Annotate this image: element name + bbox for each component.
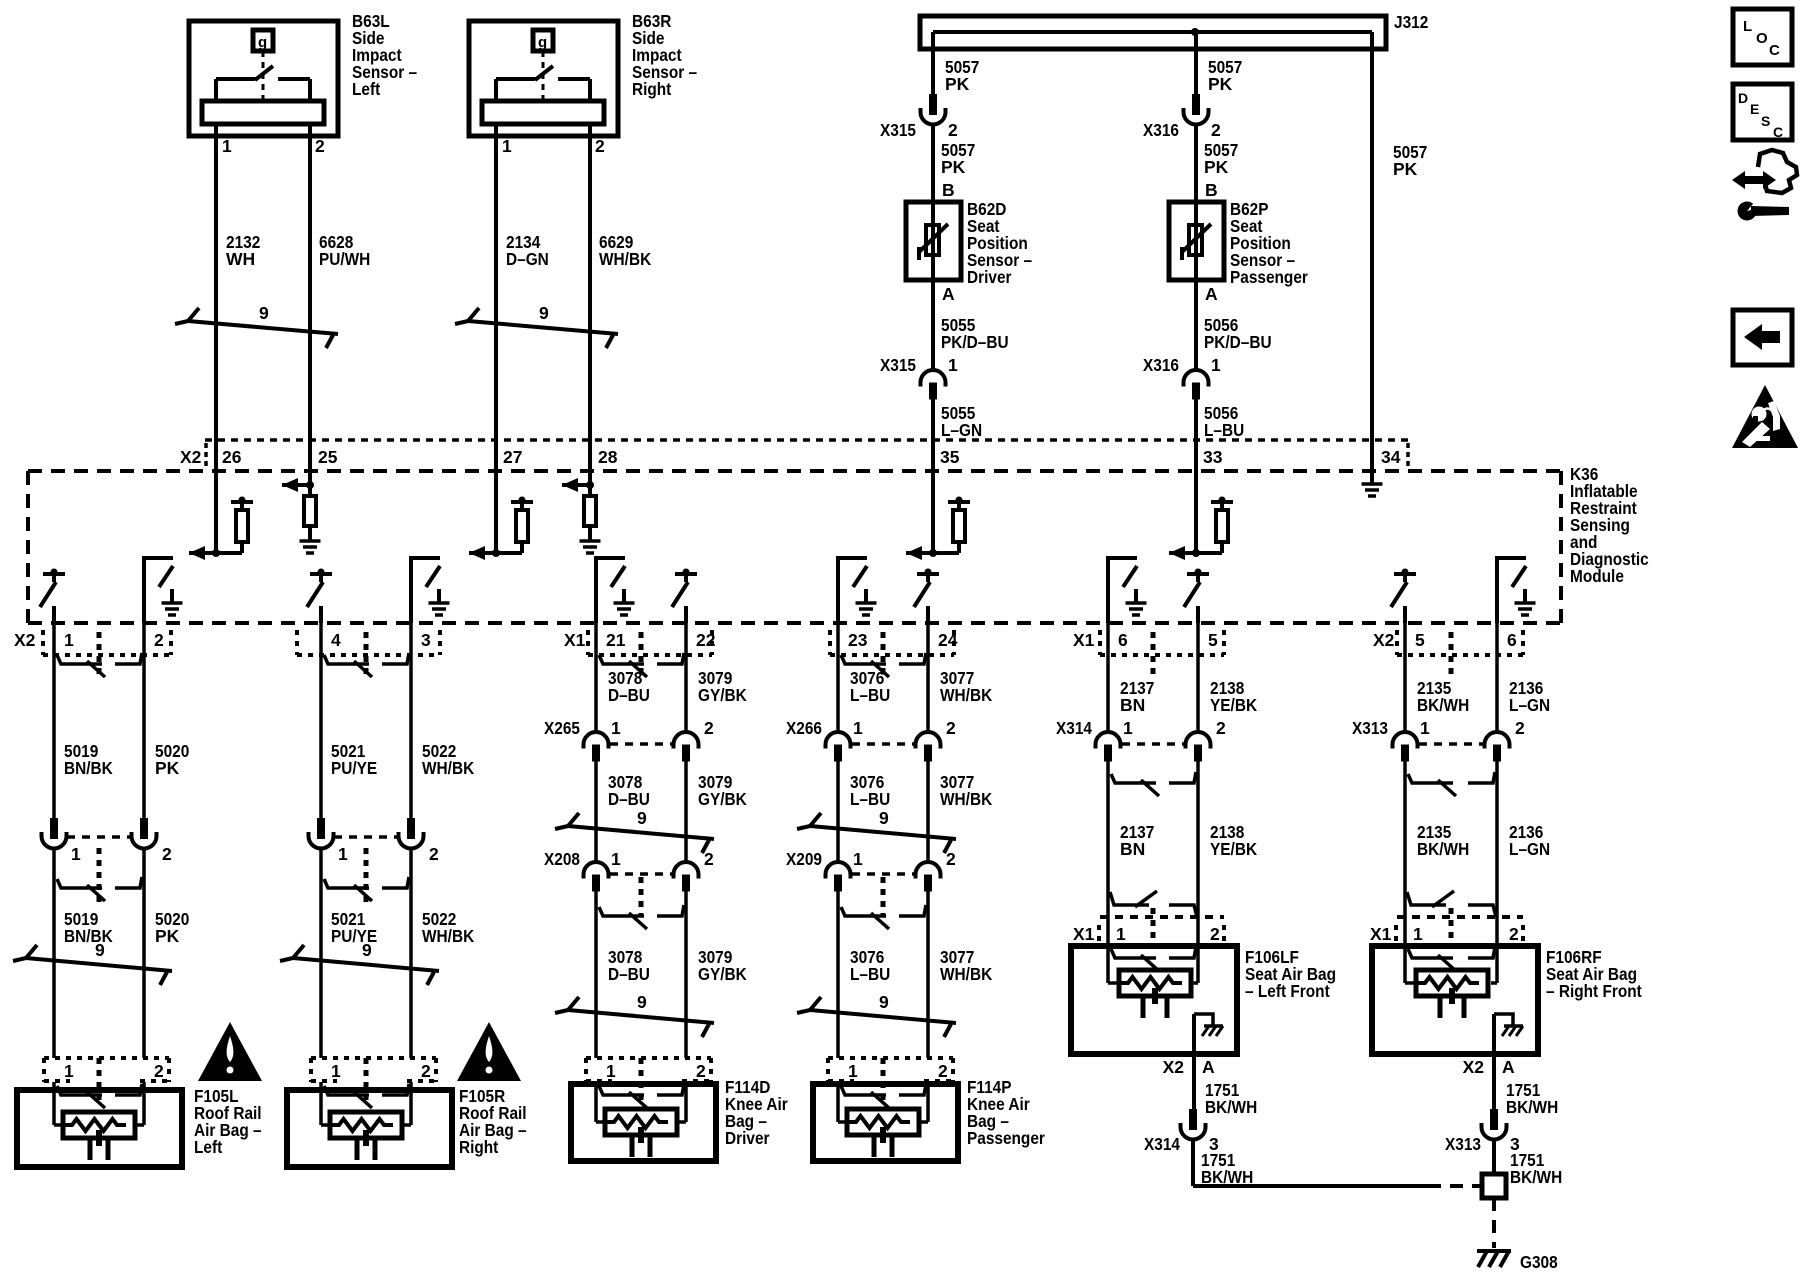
connector face row above F105L (44, 1058, 169, 1100)
sensor B63R connector bar (482, 101, 604, 124)
svg-text:PK/D–BU: PK/D–BU (1204, 332, 1272, 352)
connector X314 right half (1186, 732, 1211, 762)
twist G6 below X313 (1408, 772, 1495, 796)
F106LF row pin 1 label (1116, 924, 1126, 944)
svg-text:D–BU: D–BU (608, 964, 650, 984)
wire 2137 into F106LF (1108, 917, 1118, 983)
wire label 2136 L-GN (1) (1509, 678, 1550, 715)
wire B63R pin2 down (588, 124, 592, 470)
svg-text:X314: X314 (1144, 1134, 1180, 1154)
label X2 (band G6) (1373, 630, 1395, 650)
wire 2135 into F106RF (1405, 917, 1415, 983)
pin B label B62D (942, 180, 955, 200)
wire label 5057 PK (left) (945, 57, 979, 94)
wire label 3077 WH/BK (1) (940, 668, 993, 705)
K36 high-side driver pin 22 (672, 569, 697, 624)
sensor B63L box (189, 21, 338, 136)
svg-text:2: 2 (1210, 924, 1220, 944)
connector row X1 above F106LF (1099, 908, 1224, 946)
svg-text:X1: X1 (1370, 924, 1392, 944)
wire label 6628 PU/WH (319, 232, 370, 269)
svg-text:1: 1 (1420, 718, 1430, 738)
label B62P (1230, 199, 1308, 287)
airbag F106RF box (1372, 946, 1538, 1054)
wire 5022 into F105R (402, 1082, 411, 1125)
wire 1751 from F106LF (1192, 1054, 1196, 1109)
connector X316 pin 2 (1184, 94, 1209, 125)
svg-text:1: 1 (1116, 924, 1126, 944)
connector band cell group 5 (1100, 630, 1224, 674)
igniter squib F114P (847, 1109, 919, 1157)
twist below band G4 (841, 653, 926, 677)
connector X313 link (1419, 742, 1483, 746)
wire 3076 into F114P (838, 1082, 846, 1122)
svg-text:9: 9 (95, 940, 105, 960)
svg-text:2: 2 (946, 849, 956, 869)
inline connector G1 right half (132, 818, 157, 848)
svg-text:9: 9 (879, 992, 889, 1012)
pin 2 label X315 (948, 120, 958, 140)
seat position sensor B62D box (906, 202, 961, 280)
label X314 (pin3) (1144, 1134, 1180, 1154)
sensor B63L switch blade (255, 66, 273, 80)
connector band cell group 2 (297, 630, 440, 674)
icon LOC box (1733, 9, 1792, 65)
band pin 5 label (G6) (1415, 630, 1425, 650)
K36 input sense pin 35 (arrow, resistor) (906, 470, 970, 560)
svg-text:21: 21 (606, 630, 626, 650)
svg-text:25: 25 (318, 447, 338, 467)
svg-text:2: 2 (315, 136, 325, 156)
wire 3077 seg3 (926, 891, 930, 1058)
svg-text:34: 34 (1381, 447, 1401, 467)
band pin 6 label (G6) (1507, 630, 1517, 650)
wire label 3078 D-BU (2) (608, 772, 650, 809)
svg-text:X1: X1 (564, 630, 586, 650)
K36 low-side driver pin 2 (144, 556, 183, 623)
wire 2138 seg1 (1196, 623, 1200, 732)
wire label 5055 L-GN (941, 403, 982, 440)
svg-text:2: 2 (154, 1061, 164, 1081)
svg-text:1: 1 (948, 355, 958, 375)
wire label 3076 L-BU (3) (850, 947, 890, 984)
svg-text:PK: PK (1208, 74, 1233, 94)
module K36 bottom edge (28, 621, 1561, 625)
connector X265 left half (584, 732, 609, 762)
label X1 (band G3) (564, 630, 586, 650)
connector X316 pin 1 (1184, 370, 1209, 400)
wire B63R pin1 down (494, 124, 498, 470)
wire label 3079 GY/BK (2) (698, 772, 747, 809)
ground G308 (1477, 1251, 1511, 1267)
svg-text:BK/WH: BK/WH (1510, 1167, 1562, 1187)
svg-text:X2: X2 (1373, 630, 1395, 650)
sensor B63L g-symbol box (253, 30, 273, 51)
inline connector G1 left half (42, 818, 67, 848)
svg-text:BN/BK: BN/BK (64, 926, 113, 946)
svg-text:D–BU: D–BU (608, 789, 650, 809)
wire 5057 PK from J312 (right) (1194, 32, 1198, 95)
connector band cell group 4 (830, 630, 954, 674)
wire label 2132 WH (226, 232, 261, 269)
svg-text:PK/D–BU: PK/D–BU (941, 332, 1009, 352)
svg-text:PU/YE: PU/YE (331, 758, 377, 778)
svg-text:J312: J312 (1394, 12, 1429, 32)
F106RF case ground (1494, 1014, 1523, 1054)
label X265 (544, 718, 580, 738)
svg-text:X1: X1 (1073, 630, 1095, 650)
X209 pin 1 label (853, 849, 863, 869)
K36 high-side driver pin 4 (307, 569, 332, 624)
wire label 2137 BN (1) (1120, 678, 1154, 715)
svg-text:2: 2 (938, 1061, 948, 1081)
svg-text:WH/BK: WH/BK (940, 964, 993, 984)
X265 pin 2 label (704, 718, 714, 738)
svg-text:YE/BK: YE/BK (1210, 695, 1257, 715)
svg-text:Left: Left (352, 79, 380, 99)
twist G6 above X1 row (1407, 891, 1496, 917)
wire label 5056 PK/D-BU (1204, 315, 1272, 352)
svg-text:1: 1 (611, 849, 621, 869)
wire 5055 PK/D-BU (931, 280, 935, 370)
svg-text:PU/WH: PU/WH (319, 249, 370, 269)
svg-text:2: 2 (421, 1061, 431, 1081)
airbag F105L box (17, 1090, 182, 1167)
svg-text:X313: X313 (1352, 718, 1388, 738)
inline connector G1 link (67, 837, 131, 905)
svg-text:22: 22 (696, 630, 716, 650)
svg-text:2: 2 (1515, 718, 1525, 738)
label X208 (544, 849, 580, 869)
wire 3078 seg1 (594, 623, 598, 732)
wire 5020 into F105L (135, 1082, 144, 1125)
X265 pin 1 label (611, 718, 621, 738)
wire 3078 seg2 (594, 761, 598, 862)
connector row X2 right edge (1406, 443, 1410, 468)
svg-text:GY/BK: GY/BK (698, 789, 747, 809)
svg-text:9: 9 (637, 992, 647, 1012)
svg-text:26: 26 (222, 447, 242, 467)
svg-text:23: 23 (848, 630, 868, 650)
wire 2136 seg1 (1495, 623, 1499, 732)
svg-text:PK: PK (1393, 159, 1418, 179)
junction block J312 (920, 16, 1386, 49)
wire label 5019 BN/BK (lower) (64, 909, 113, 946)
icon airbag warning triangle (1732, 385, 1798, 448)
pin 2 of B63R (595, 136, 605, 156)
connector X209 link (852, 874, 916, 916)
connector X209 left half (826, 862, 851, 892)
wire 5019 mid (52, 848, 56, 1058)
X266 pin 1 label (853, 718, 863, 738)
twisted pair marker 9 (G2) (280, 940, 439, 985)
svg-text:g: g (538, 34, 547, 51)
wire 5057 PK from J312 (931, 32, 935, 95)
connector band cell group 1 (43, 630, 171, 674)
K36 input sense pin 27 (arrow, resistor) (469, 470, 533, 560)
svg-text:WH/BK: WH/BK (940, 685, 993, 705)
sensor B63R dashed actuator link (542, 51, 545, 100)
K36 input sense pin 26 (arrow, resistor) (189, 470, 253, 560)
wire B63L pin1 down (214, 124, 218, 470)
connector band cell group 3 (588, 630, 712, 674)
wire 5022 upper (409, 623, 413, 824)
inline G2 pin 2 label (429, 844, 439, 864)
sensor B63R g-symbol box (533, 30, 553, 51)
module K36 left edge (26, 471, 30, 623)
warning triangle (F105R) (457, 1022, 521, 1081)
airbag F114D box (571, 1084, 716, 1161)
svg-text:A: A (1202, 1057, 1215, 1077)
label X209 (786, 849, 822, 869)
pin 26 label (222, 447, 242, 467)
sensor B63R box (469, 21, 618, 136)
wire 3077 into F114P (920, 1082, 928, 1122)
wire 2138 into F106LF (1192, 917, 1198, 983)
airbag F105R box (287, 1090, 452, 1167)
svg-text:PK: PK (155, 758, 180, 778)
connector X266 left half (826, 732, 851, 762)
wire label 2138 YE/BK (1) (1210, 678, 1257, 715)
X313 pin 2 label (1515, 718, 1525, 738)
wire label 5021 PU/YE (lower) (331, 909, 377, 946)
wire 2135 seg2 (1403, 761, 1407, 917)
twist G6 inside box (1408, 947, 1495, 971)
svg-text:X265: X265 (544, 718, 580, 738)
K36 high-side driver pin 24 (914, 569, 939, 624)
wire label 5055 PK/D-BU (941, 315, 1009, 352)
connector X313 pin 3 (1482, 1109, 1507, 1140)
svg-text:YE/BK: YE/BK (1210, 839, 1257, 859)
svg-text:X209: X209 (786, 849, 822, 869)
pin 27 label (503, 447, 522, 467)
svg-text:9: 9 (539, 303, 549, 323)
svg-text:1: 1 (1413, 924, 1423, 944)
svg-text:C: C (1769, 42, 1780, 59)
pin B label B62P (1205, 180, 1218, 200)
svg-text:33: 33 (1203, 447, 1223, 467)
wire 5019 into F105L (54, 1082, 63, 1125)
svg-text:BK/WH: BK/WH (1201, 1167, 1253, 1187)
wire 5020 mid (142, 848, 146, 1058)
wire 3078 into F114D (596, 1082, 604, 1122)
igniter squib F106LF (1119, 970, 1191, 1018)
label X1 (F106RF row) (1370, 924, 1392, 944)
svg-text:WH/BK: WH/BK (422, 758, 475, 778)
inline G1 pin 2 label (162, 844, 172, 864)
svg-text:3: 3 (421, 630, 431, 650)
label K36 (1570, 464, 1649, 586)
sensor B62P potentiometer (1181, 224, 1211, 280)
inline G1 pin 1 label (71, 844, 81, 864)
igniter squib F105L (63, 1112, 135, 1160)
connector X314 pin 3 (1181, 1109, 1206, 1140)
svg-text:X266: X266 (786, 718, 822, 738)
wire 3078 seg3 (594, 891, 598, 1058)
airbag F114P box (813, 1084, 958, 1161)
sensor B63R label (632, 11, 697, 99)
pin 1 label X316 (1211, 355, 1221, 375)
svg-text:PK: PK (1204, 157, 1229, 177)
wire label 3077 WH/BK (3) (940, 947, 993, 984)
svg-text:9: 9 (362, 940, 372, 960)
svg-text:24: 24 (938, 630, 958, 650)
band pin 4 label (331, 630, 341, 650)
wire 2136 into F106RF (1491, 917, 1497, 983)
wire 5022 mid (409, 848, 413, 1058)
K36 low-side driver pin 6 (X2) (1497, 556, 1536, 623)
svg-text:1: 1 (338, 844, 348, 864)
svg-text:27: 27 (503, 447, 522, 467)
svg-text:S: S (1761, 113, 1770, 129)
svg-text:X316: X316 (1143, 355, 1179, 375)
svg-text:Driver: Driver (967, 267, 1012, 287)
X209 pin 2 label (946, 849, 956, 869)
svg-text:PK: PK (941, 157, 966, 177)
twist G1 at F105L (57, 1084, 142, 1108)
svg-text:GY/BK: GY/BK (698, 685, 747, 705)
svg-text:1: 1 (222, 136, 232, 156)
wire 5019 upper (52, 623, 56, 824)
label X315 (top) (880, 120, 916, 140)
wire 5056 PK/D-BU (1194, 280, 1198, 370)
twist G4 at F114P (841, 1084, 926, 1108)
twisted pair marker 9 (G3 upper) (555, 808, 714, 853)
svg-text:5: 5 (1208, 630, 1218, 650)
svg-text:4: 4 (331, 630, 341, 650)
pin 35 label (940, 447, 960, 467)
wire 2135 seg1 (1403, 623, 1407, 732)
connector X315 pin 1 (921, 370, 946, 400)
K36 input sense pin 33 (arrow, resistor) (1169, 470, 1233, 560)
svg-text:L–GN: L–GN (1509, 695, 1550, 715)
wire 3076 seg3 (836, 891, 840, 1058)
F106LF row pin 2 label (1210, 924, 1220, 944)
wire 2137 seg2 (1106, 761, 1110, 917)
twist below band G1 (57, 653, 142, 677)
svg-text:GY/BK: GY/BK (698, 964, 747, 984)
svg-text:X2: X2 (180, 447, 202, 467)
svg-text:L–BU: L–BU (850, 685, 890, 705)
pin A label B62P (1205, 284, 1218, 304)
wire 5057 PK to K36 pin 34 (1370, 32, 1374, 470)
label F114P (967, 1077, 1045, 1148)
svg-text:1: 1 (71, 844, 81, 864)
svg-text:2: 2 (595, 136, 605, 156)
label X2 A (F106LF) (1163, 1057, 1215, 1077)
pin A label B62D (942, 284, 955, 304)
pin 28 label (598, 447, 618, 467)
wire 5057 PK to B62P (1194, 124, 1198, 225)
svg-text:Right: Right (459, 1137, 498, 1157)
twist G3 below X208 (599, 905, 684, 929)
svg-text:9: 9 (879, 808, 889, 828)
svg-text:PK: PK (155, 926, 180, 946)
pin 1 of B63L (222, 136, 232, 156)
svg-text:1: 1 (1211, 355, 1221, 375)
svg-text:9: 9 (637, 808, 647, 828)
wire label 5056 L-BU (1204, 403, 1244, 440)
twist G2 at F105R (324, 1084, 409, 1108)
label F105R (459, 1086, 527, 1157)
svg-text:35: 35 (940, 447, 960, 467)
connector X209 right half (916, 862, 941, 892)
svg-text:X2: X2 (1463, 1057, 1485, 1077)
svg-text:X316: X316 (1143, 120, 1179, 140)
svg-text:Passenger: Passenger (1230, 267, 1308, 287)
svg-text:B: B (942, 180, 955, 200)
svg-text:D: D (1738, 90, 1748, 106)
pin 33 label (1203, 447, 1223, 467)
pin 1 of B63R (502, 136, 512, 156)
svg-text:1: 1 (606, 1061, 616, 1081)
svg-text:1: 1 (848, 1061, 858, 1081)
wire label 5022 WH/BK (upper) (422, 741, 475, 778)
svg-text:g: g (258, 34, 267, 51)
label X2 A (F106RF) (1463, 1057, 1515, 1077)
label X314 (1056, 718, 1092, 738)
svg-text:BN/BK: BN/BK (64, 758, 113, 778)
connector face row above F114D (586, 1058, 711, 1100)
svg-text:L–BU: L–BU (1204, 420, 1244, 440)
sensor B63L connector bar (202, 101, 324, 124)
svg-text:WH: WH (226, 249, 255, 269)
svg-text:D–GN: D–GN (506, 249, 549, 269)
connector X265 right half (674, 732, 699, 762)
svg-text:Module: Module (1570, 566, 1624, 586)
wire label 5021 PU/YE (upper) (331, 741, 377, 778)
igniter squib F106RF (1416, 970, 1488, 1018)
K36 high-side driver pin 5 (1184, 569, 1209, 624)
svg-text:BN: BN (1120, 695, 1145, 715)
svg-text:2: 2 (429, 844, 439, 864)
pin 34 label (1381, 447, 1401, 467)
twisted pair marker 9 (G1) (13, 940, 172, 985)
X313 pin 1 label (1420, 718, 1430, 738)
label X2 (top row) (180, 447, 202, 467)
svg-text:28: 28 (598, 447, 618, 467)
pin 1 label X315 (948, 355, 958, 375)
svg-text:Passenger: Passenger (967, 1128, 1045, 1148)
svg-text:G308: G308 (1520, 1252, 1558, 1272)
wire label 3076 L-BU (2) (850, 772, 890, 809)
wire label 1751 BK/WH (G5 lower) (1201, 1150, 1253, 1187)
sensor B63L contact arms (216, 79, 310, 101)
svg-text:1: 1 (331, 1061, 341, 1081)
pin 3 label X314 (1209, 1134, 1219, 1154)
wire label 3079 GY/BK (1) (698, 668, 747, 705)
wire 5057 PK to B62D (931, 124, 935, 225)
svg-text:L–BU: L–BU (850, 964, 890, 984)
svg-text:D–BU: D–BU (608, 685, 650, 705)
svg-text:X314: X314 (1056, 718, 1092, 738)
twist G5 above X1 row (1110, 891, 1197, 917)
twist G5 inside box (1111, 947, 1196, 971)
svg-text:L–GN: L–GN (1509, 839, 1550, 859)
svg-text:X2: X2 (14, 630, 36, 650)
svg-text:2: 2 (704, 718, 714, 738)
svg-text:BK/WH: BK/WH (1417, 695, 1469, 715)
K36 input pin 28 (arrow, resistor, ground) (562, 470, 601, 553)
K36 low-side driver pin 23 (838, 556, 877, 623)
wire label 3078 D-BU (3) (608, 947, 650, 984)
svg-text:5: 5 (1415, 630, 1425, 650)
wire 3079 seg3 (684, 891, 688, 1058)
svg-text:1: 1 (853, 849, 863, 869)
wire 5056 L-BU to K36 pin 33 (1194, 399, 1198, 470)
sensor B63R switch blade (535, 66, 553, 80)
svg-text:– Left Front: – Left Front (1245, 981, 1330, 1001)
